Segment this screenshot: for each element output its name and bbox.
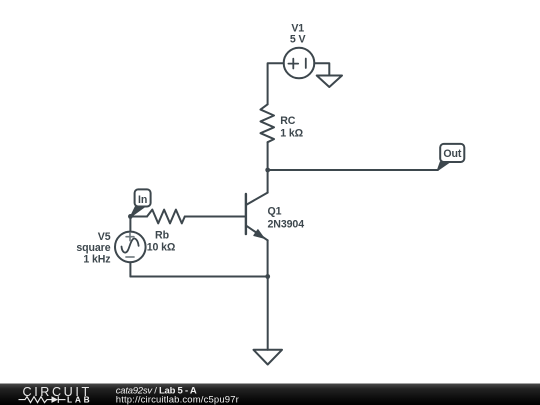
label Rb value (147, 230, 176, 254)
svg-text:LAB: LAB (67, 394, 92, 404)
In flag (131, 189, 151, 216)
label V1 value (290, 23, 306, 46)
voltage source V5 (115, 216, 146, 276)
Out flag (438, 144, 465, 170)
svg-text:1 kΩ: 1 kΩ (280, 128, 303, 140)
wire V1 right lead (314, 63, 329, 75)
svg-text:Q1: Q1 (268, 206, 282, 218)
footer bar (0, 384, 540, 405)
ground flag at V1 (317, 76, 342, 88)
svg-text:http://circuitlab.com/c5pu97r: http://circuitlab.com/c5pu97r (116, 394, 239, 405)
wire emitter node to ground (267, 277, 269, 350)
node collector (junction) (265, 168, 270, 173)
svg-text:2N3904: 2N3904 (268, 219, 305, 231)
node emitter (junction) (265, 274, 270, 279)
transistor Q1 (246, 193, 268, 241)
svg-text:Out: Out (443, 148, 462, 160)
voltage source V1 (284, 48, 315, 79)
node In (junction) (128, 214, 133, 219)
resistor Rb (130, 210, 184, 224)
wire node to Out (268, 169, 438, 171)
label RC value (280, 115, 303, 140)
svg-text:In: In (138, 194, 147, 206)
CircuitLab logo wordmark (23, 385, 92, 399)
resistor RC (261, 104, 275, 142)
svg-text:5 V: 5 V (290, 34, 306, 46)
ground (254, 350, 283, 365)
svg-text:1 kHz: 1 kHz (83, 253, 110, 265)
label Q1 value (268, 206, 305, 231)
wire emitter (267, 240, 269, 276)
wire bottom from V5 to emitter node (130, 276, 267, 278)
wire RC bottom to collector node (267, 142, 269, 170)
svg-text:Rb: Rb (155, 230, 170, 242)
label V5 value (76, 231, 110, 265)
wire base (185, 216, 245, 218)
svg-text:RC: RC (280, 115, 296, 127)
wire collector (267, 170, 269, 193)
CircuitLab logo schematic line (resistor + diode) (19, 396, 66, 403)
wire V1 left lead to RC (268, 63, 284, 104)
svg-text:10 kΩ: 10 kΩ (147, 242, 176, 254)
